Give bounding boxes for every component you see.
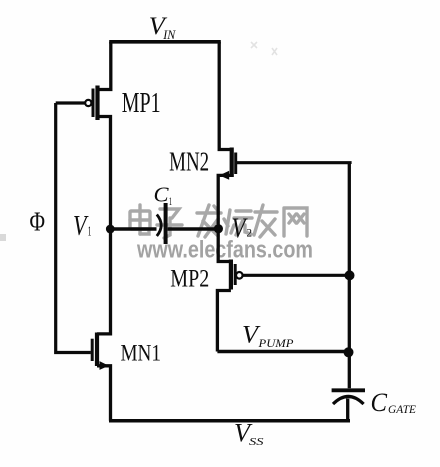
transistor MN1 source arrow bbox=[100, 361, 109, 370]
node V2 junction dot bbox=[214, 224, 223, 233]
label VSS bbox=[234, 419, 265, 449]
transistor MP2 gate bubble bbox=[236, 272, 243, 279]
wire MP2 source down to VPUMP rail bbox=[217, 291, 231, 352]
svg-text:1: 1 bbox=[169, 194, 172, 208]
label VIN bbox=[149, 11, 176, 42]
transistor MP1 gate bubble bbox=[85, 100, 91, 106]
transistor MP2 channel bar bbox=[229, 260, 233, 290]
wire MP1 gate to phi line bbox=[56, 101, 85, 104]
label VPUMP bbox=[242, 321, 294, 350]
node V1 junction dot bbox=[106, 225, 115, 234]
transistor MP1 gate bar bbox=[92, 89, 95, 118]
svg-text:C: C bbox=[371, 387, 388, 417]
wire top rail VIN bbox=[109, 40, 221, 44]
transistor MN2 source arrow bbox=[219, 171, 229, 180]
发 bbox=[197, 205, 221, 237]
capacitor C1 flat plate bbox=[164, 203, 168, 244]
wire MN2 source down to node V2 bbox=[218, 175, 232, 229]
svg-text:1: 1 bbox=[88, 223, 92, 238]
wire V1 down to MN1 drain bbox=[97, 229, 111, 334]
watermark chinese characters bbox=[130, 205, 307, 238]
label CGATE bbox=[371, 387, 417, 417]
wire MN2 gate to right rail bbox=[237, 163, 350, 164]
svg-text:GATE: GATE bbox=[388, 404, 416, 416]
子 bbox=[157, 209, 182, 238]
svg-text:MN1: MN1 bbox=[121, 340, 162, 365]
wire right rail down to CGATE bbox=[348, 163, 351, 389]
wire MN2 drain from VIN rail bbox=[219, 42, 232, 150]
烧 bbox=[224, 210, 252, 235]
wire MP1 source down to node V1 bbox=[98, 117, 111, 230]
faint left-edge speck bbox=[0, 234, 6, 241]
capacitor CGATE flat top plate bbox=[332, 388, 365, 392]
wire phi line bbox=[56, 103, 91, 353]
capacitor C1 curved plate bbox=[157, 215, 161, 237]
svg-text:Φ: Φ bbox=[30, 206, 46, 236]
wire bottom rail VSS bbox=[109, 419, 350, 423]
svg-text:MN2: MN2 bbox=[169, 147, 209, 177]
transistor MN2 channel bar bbox=[230, 148, 234, 178]
友 bbox=[254, 205, 277, 237]
wire CGATE bottom to VSS rail bbox=[346, 399, 349, 421]
node MP2 gate junction dot bbox=[345, 270, 355, 280]
svg-text:www.elecfans.com: www.elecfans.com bbox=[136, 237, 313, 264]
wire MP1 drain from VIN rail bbox=[98, 42, 111, 90]
svg-text:MP2: MP2 bbox=[170, 264, 209, 293]
label C1 bbox=[154, 183, 173, 208]
transistor MN1 gate bar bbox=[91, 339, 94, 361]
node VPUMP junction dot bbox=[344, 347, 354, 357]
svg-text:IN: IN bbox=[162, 28, 176, 42]
transistor MP2 gate bar bbox=[234, 264, 237, 285]
wire C1 to node V2 bbox=[168, 227, 219, 230]
wire VPUMP rail bbox=[217, 350, 349, 353]
wire V2 down to MP2 drain bbox=[218, 229, 231, 262]
svg-text:SS: SS bbox=[249, 437, 265, 448]
transistor MN2 gate bar bbox=[234, 153, 237, 175]
电 bbox=[130, 205, 150, 234]
svg-text:PUMP: PUMP bbox=[257, 338, 293, 350]
wire V1 to C1 left plate bbox=[111, 227, 157, 230]
svg-text:2: 2 bbox=[247, 226, 253, 240]
faint top-right watermark remnants bbox=[251, 42, 277, 55]
wire MN1 source to VSS rail bbox=[97, 366, 111, 421]
svg-text:MP1: MP1 bbox=[122, 88, 161, 119]
wire MP2 gate to right rail bbox=[243, 274, 349, 277]
transistor MP1 channel bar bbox=[95, 86, 99, 121]
transistor MN1 channel bar bbox=[95, 333, 99, 367]
label V2 bbox=[232, 213, 253, 245]
capacitor CGATE curved bottom plate bbox=[333, 396, 364, 404]
svg-text:C: C bbox=[154, 183, 170, 207]
label V1 bbox=[73, 210, 91, 242]
网 bbox=[284, 208, 307, 236]
